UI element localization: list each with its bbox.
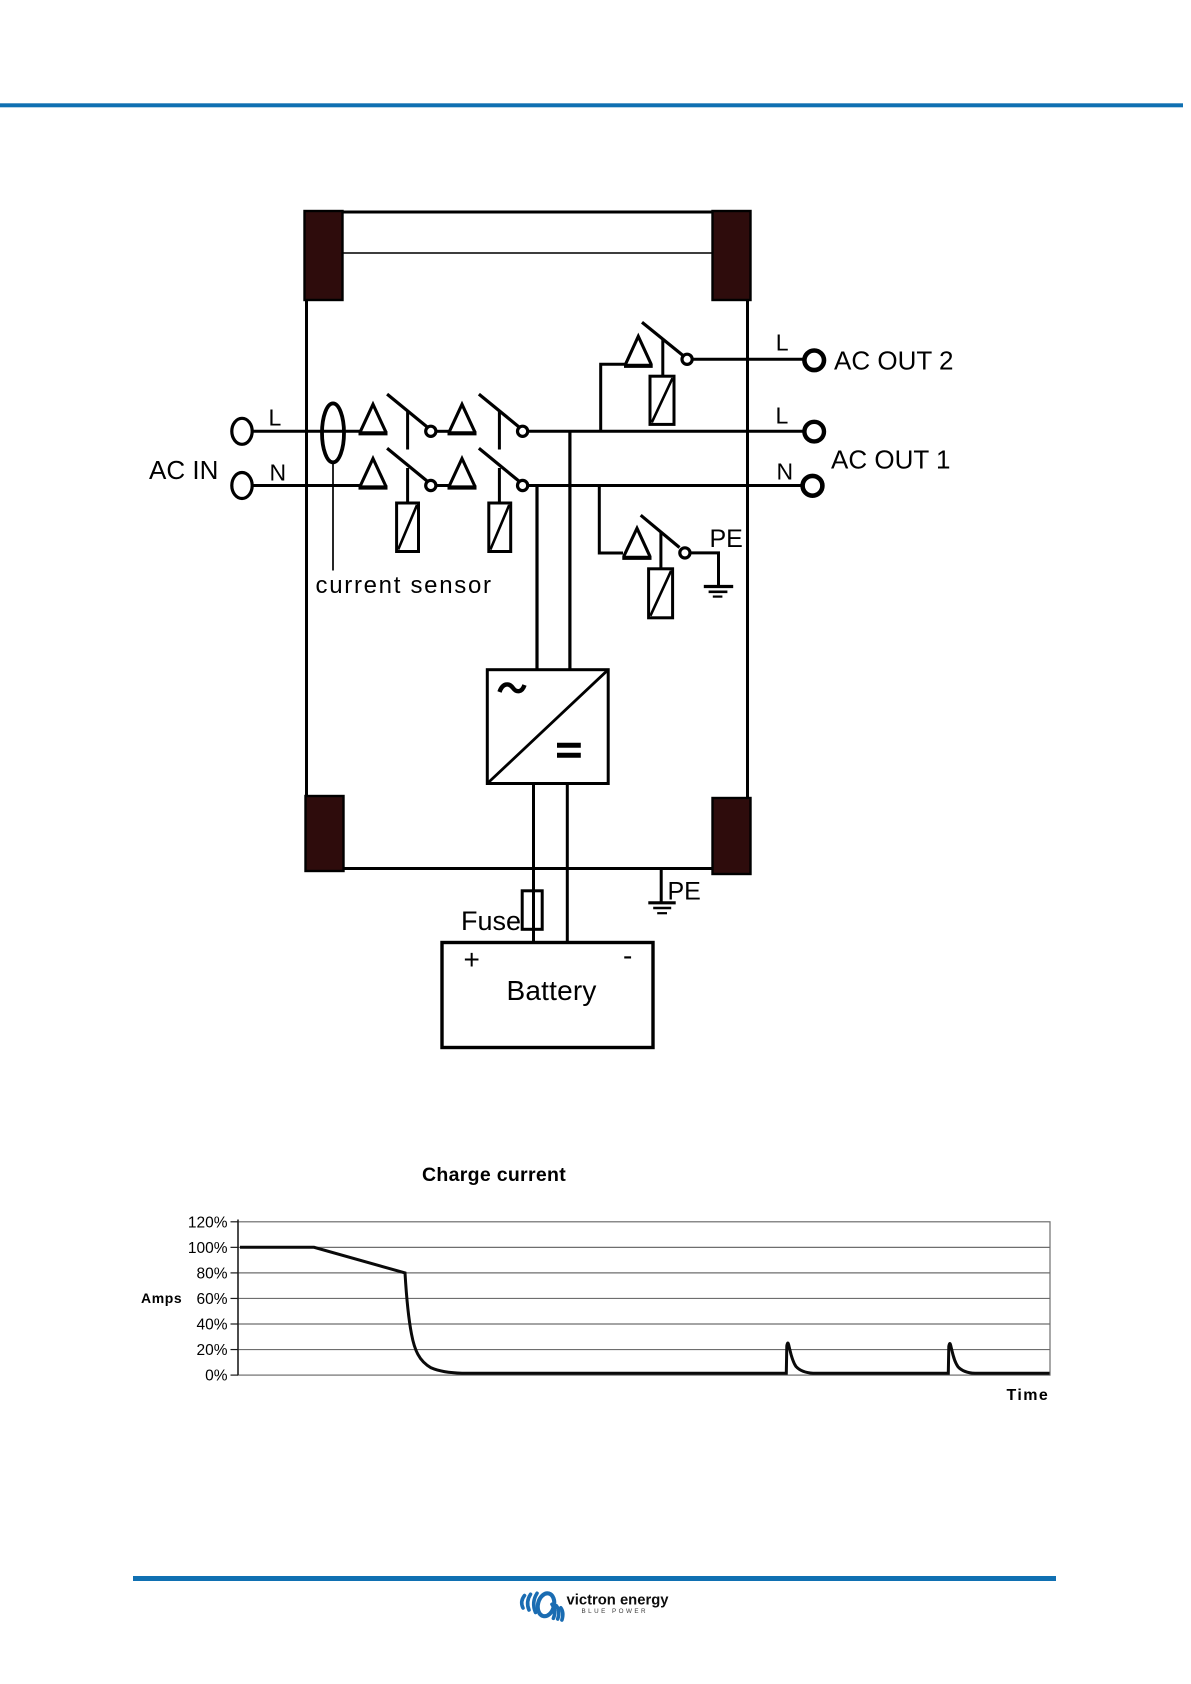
- relay contact K1b fixed circle: [426, 480, 436, 490]
- wire PE relay to ground: [690, 553, 718, 586]
- relay contact K2a fixed circle: [518, 426, 528, 436]
- svg-text:L: L: [776, 403, 789, 429]
- gridline 40%: [238, 1323, 1050, 1325]
- enclosure box outline: [307, 212, 748, 869]
- DC equals symbol: [557, 745, 581, 755]
- svg-text:40%: 40%: [196, 1317, 227, 1334]
- wire branch to AC OUT 2 relay: [601, 364, 625, 431]
- wire L out to AC OUT 1: [528, 430, 804, 433]
- arrow triangle PE: [622, 528, 651, 558]
- relay contact K4 blade: [641, 515, 680, 547]
- tick label 60%: [196, 1291, 227, 1308]
- mounting block top-left: [305, 211, 343, 300]
- label AC IN: [149, 455, 218, 485]
- label plus: [464, 944, 480, 975]
- relay contact K4 fixed circle: [680, 548, 690, 558]
- wire branch to PE relay: [599, 486, 623, 554]
- ground symbol chassis: [648, 903, 675, 913]
- mounting block bottom-left: [306, 796, 344, 871]
- blue power tagline: [582, 1608, 649, 1615]
- inverter charger block U1: [487, 670, 608, 784]
- svg-text:PE: PE: [710, 525, 743, 553]
- relay coil K3: [650, 376, 674, 424]
- current sensor toroid: [322, 403, 344, 462]
- current sensor leader line: [332, 463, 334, 571]
- arrow triangle L2: [448, 404, 477, 433]
- relay contact K1a fixed circle: [426, 426, 436, 436]
- label Fuse: [461, 906, 521, 936]
- victron logo coil mark: [522, 1592, 563, 1620]
- label L (AC OUT 2): [776, 330, 789, 356]
- svg-text:+: +: [464, 944, 480, 975]
- label current sensor: [316, 572, 493, 599]
- label N (AC IN): [270, 460, 287, 486]
- gridline 60%: [238, 1297, 1050, 1299]
- svg-text:current sensor: current sensor: [316, 572, 493, 599]
- gridline 80%: [238, 1272, 1050, 1274]
- wire L bus down to inverter: [568, 431, 571, 671]
- svg-text:victron energy: victron energy: [567, 1592, 670, 1608]
- victron energy wordmark: [567, 1592, 670, 1608]
- svg-text:Battery: Battery: [507, 975, 597, 1006]
- relay contact K1b blade: [387, 448, 427, 481]
- svg-text:60%: 60%: [196, 1291, 227, 1308]
- svg-text:AC OUT 2: AC OUT 2: [834, 345, 953, 375]
- terminal AC IN N: [232, 473, 252, 499]
- mounting block top-right: [713, 211, 751, 300]
- wire N out: [528, 484, 801, 487]
- terminal AC OUT 1 L: [804, 422, 824, 442]
- chart plot border: [238, 1222, 1050, 1375]
- terminal AC IN L: [232, 418, 252, 444]
- axis label Amps: [141, 1290, 182, 1306]
- AC tilde symbol: [500, 684, 525, 692]
- chart title Charge current: [422, 1164, 566, 1186]
- svg-text:-: -: [623, 940, 632, 971]
- svg-text:120%: 120%: [188, 1214, 228, 1231]
- label AC OUT 1: [831, 445, 950, 475]
- arrow triangle AC OUT 2: [624, 336, 653, 366]
- label L (AC IN): [269, 405, 282, 431]
- svg-text:PE: PE: [668, 878, 701, 906]
- gridline 20%: [238, 1349, 1050, 1351]
- wire N bus down to inverter: [535, 486, 538, 672]
- gridline 100%: [238, 1246, 1050, 1248]
- label N (AC OUT 1): [777, 459, 794, 485]
- charge current curve: [240, 1247, 1050, 1373]
- relay contact K2b link: [498, 468, 501, 504]
- tick label 120%: [188, 1214, 228, 1231]
- wire AC IN L: [252, 430, 360, 433]
- relay coil K1: [397, 503, 419, 552]
- svg-text:AC OUT 1: AC OUT 1: [831, 445, 950, 475]
- ground symbol PE relay: [704, 587, 733, 597]
- relay contact K2b fixed circle: [518, 480, 528, 490]
- svg-text:Amps: Amps: [141, 1290, 182, 1306]
- mounting block bottom-right: [713, 798, 751, 874]
- arrow triangle L1: [359, 404, 388, 433]
- svg-text:L: L: [776, 330, 789, 356]
- tick label 100%: [188, 1240, 228, 1257]
- wire L mid: [436, 430, 450, 433]
- svg-text:N: N: [777, 459, 794, 485]
- svg-text:BLUE POWER: BLUE POWER: [582, 1608, 649, 1615]
- relay contact K1a blade: [387, 394, 427, 427]
- tick label 0%: [205, 1368, 228, 1385]
- svg-text:Charge current: Charge current: [422, 1164, 566, 1186]
- svg-text:20%: 20%: [196, 1342, 227, 1359]
- footer blue rule: [133, 1576, 1056, 1581]
- axis label Time: [1007, 1387, 1050, 1404]
- relay contact K3 fixed circle: [682, 354, 692, 364]
- relay contact K2b blade: [479, 448, 519, 481]
- svg-text:Fuse: Fuse: [461, 906, 521, 936]
- terminal AC OUT 1 N: [803, 476, 823, 496]
- label AC OUT 2: [834, 345, 953, 375]
- svg-text:80%: 80%: [196, 1266, 227, 1283]
- tick label 80%: [196, 1266, 227, 1283]
- wire N mid: [436, 484, 450, 487]
- wire chassis PE stub: [660, 869, 663, 902]
- relay coil K2: [489, 503, 511, 552]
- wire battery negative: [566, 784, 569, 943]
- relay contact K3 blade: [642, 322, 683, 355]
- svg-text:N: N: [270, 460, 287, 486]
- relay coil K4: [649, 569, 673, 618]
- label minus: [623, 940, 632, 971]
- arrow triangle N2: [448, 459, 477, 488]
- terminal AC OUT 2: [804, 351, 824, 371]
- svg-text:Time: Time: [1007, 1387, 1050, 1404]
- relay contact K3 link: [661, 340, 664, 377]
- relay contact K2a link: [498, 411, 501, 450]
- fuse F1: [522, 891, 542, 930]
- label PE (relay): [710, 525, 743, 553]
- label Battery: [507, 975, 597, 1006]
- relay contact K1a link: [406, 411, 409, 450]
- relay contact K2a blade: [479, 394, 519, 427]
- svg-text:100%: 100%: [188, 1240, 228, 1257]
- inner top divider line: [343, 252, 713, 254]
- relay contact K4 link: [659, 533, 662, 570]
- label L (AC OUT 1): [776, 403, 789, 429]
- relay contact K1b link: [406, 468, 409, 504]
- tick label 40%: [196, 1317, 227, 1334]
- svg-text:AC IN: AC IN: [149, 455, 218, 485]
- svg-text:0%: 0%: [205, 1368, 228, 1385]
- wire battery positive: [532, 784, 535, 943]
- wire AC IN N: [252, 484, 360, 487]
- label PE (chassis): [668, 878, 701, 906]
- chart y axis: [231, 1220, 239, 1376]
- tick label 20%: [196, 1342, 227, 1359]
- svg-text:L: L: [269, 405, 282, 431]
- top header blue rule: [0, 103, 1183, 107]
- arrow triangle N1: [359, 459, 388, 488]
- wire AC OUT 2: [692, 358, 804, 361]
- battery B1: [442, 943, 653, 1048]
